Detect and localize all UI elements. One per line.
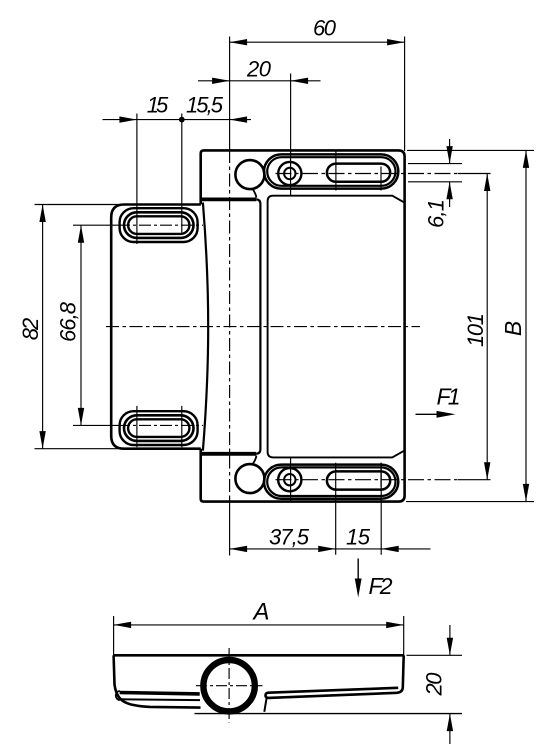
row centerline top <box>276 173 459 175</box>
bottom view left sliver top band <box>120 693 200 694</box>
body outline right leaf <box>201 150 405 501</box>
dim 82 <box>35 205 124 449</box>
svg-text:60: 60 <box>313 16 337 41</box>
svg-text:66,8: 66,8 <box>56 301 81 342</box>
centerline solid extension top <box>229 37 231 151</box>
bottom view left sliver bottom line <box>120 698 200 701</box>
left slot centerline top <box>73 224 118 226</box>
central face edge right with flange lines <box>268 196 405 458</box>
dim 20 <box>198 80 321 82</box>
dim 60 <box>230 37 405 152</box>
svg-text:101: 101 <box>463 313 488 347</box>
svg-text:15,5: 15,5 <box>186 93 224 118</box>
left slot centerline bottom <box>73 424 118 426</box>
dim 15 / 15,5 <box>103 114 252 245</box>
svg-text:15: 15 <box>147 93 169 118</box>
bottom view outline <box>114 655 404 707</box>
slot end tick right bottom <box>380 463 382 487</box>
recess outer bottom <box>264 465 398 499</box>
left slot middle bottom <box>124 415 194 441</box>
ring crosshair <box>196 685 263 687</box>
dim 20 bottom <box>407 625 463 744</box>
svg-text:37,5: 37,5 <box>269 525 310 550</box>
dim 37,5 / 15 <box>230 463 431 555</box>
F1 arrow <box>416 413 441 415</box>
leaf curved edge <box>203 203 208 451</box>
left slot outer top <box>120 208 198 242</box>
left slot middle top <box>124 212 194 238</box>
knuckle step line bottom <box>200 452 256 456</box>
knuckle circle bottom <box>235 464 264 493</box>
hole circle bottom <box>278 468 301 491</box>
bottom view step <box>264 698 266 712</box>
knuckle step line top <box>200 197 256 201</box>
central face edge left <box>256 199 260 453</box>
dim 6,1 <box>408 139 462 207</box>
bottom view left sliver cap <box>116 691 120 700</box>
svg-text:F2: F2 <box>369 573 393 599</box>
hole inner circle bottom <box>284 474 295 485</box>
main vertical centerline <box>229 150 231 500</box>
left slot inner top <box>128 216 189 234</box>
dim 66,8 <box>80 225 82 425</box>
left slot inner bottom <box>128 419 189 437</box>
dim B <box>406 150 534 501</box>
left slot tick lines bottom <box>137 406 182 447</box>
svg-text:82: 82 <box>18 318 43 341</box>
svg-text:A: A <box>251 599 269 626</box>
dim A <box>114 616 404 656</box>
recess inner bottom <box>267 467 395 496</box>
svg-text:15: 15 <box>346 525 371 550</box>
svg-text:20: 20 <box>422 672 447 697</box>
hinge pin ring <box>203 660 254 711</box>
hole inner circle top <box>284 168 295 179</box>
left slot outer bottom <box>120 411 198 445</box>
dim 101 <box>486 174 488 480</box>
slot end tick left top <box>335 152 337 191</box>
F2 arrow <box>357 559 359 581</box>
recess outer top <box>264 154 398 188</box>
bottom tangent line <box>195 713 463 715</box>
knuckle circle top <box>235 160 264 189</box>
svg-text:20: 20 <box>246 57 272 82</box>
slot end tick right top <box>380 167 382 191</box>
slot top <box>327 164 390 182</box>
hole circle top <box>278 162 301 185</box>
knuckle fillet top <box>253 189 257 198</box>
left plate outline <box>111 205 201 449</box>
centerline solid extension bottom <box>229 498 231 556</box>
slot bottom <box>327 471 390 489</box>
main horizontal centerline <box>106 326 420 328</box>
knuckle fillet bottom <box>253 456 257 465</box>
row centerline bottom <box>276 479 459 481</box>
svg-text:6,1: 6,1 <box>424 199 449 228</box>
hole vertical centerline top <box>290 74 292 196</box>
recess inner top <box>267 157 395 186</box>
svg-text:F1: F1 <box>437 384 461 410</box>
hole vertical centerline bottom <box>290 458 292 502</box>
svg-text:B: B <box>500 321 526 336</box>
